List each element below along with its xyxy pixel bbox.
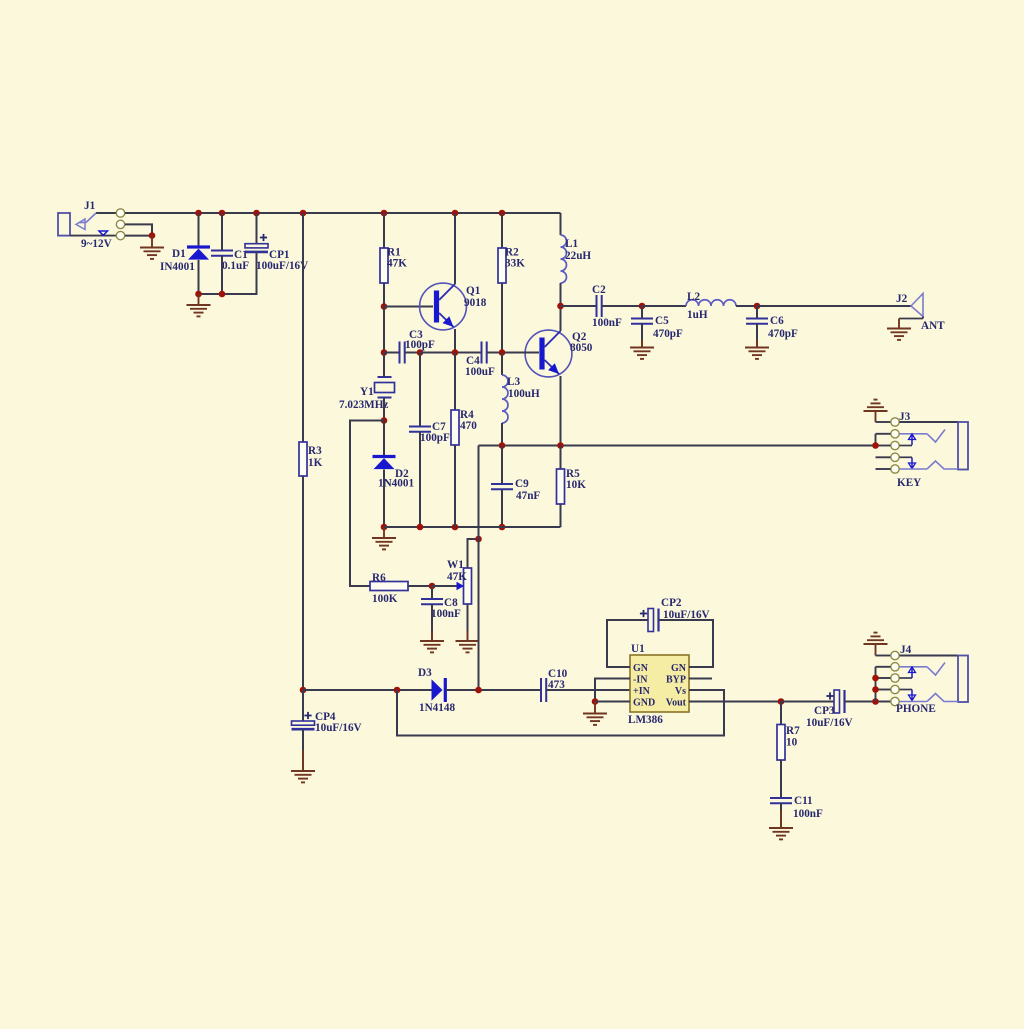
- connector J1 power jack: [58, 200, 125, 250]
- ground input filter: [187, 305, 211, 316]
- resistor R6: [370, 572, 408, 605]
- wire ground stem input filter: [198, 294, 200, 305]
- wire J1 pin3 to ground: [125, 235, 152, 237]
- ground oscillator: [372, 538, 396, 549]
- svg-text:100nF: 100nF: [592, 317, 622, 329]
- svg-text:Q1: Q1: [466, 285, 481, 297]
- svg-text:C9: C9: [515, 478, 529, 490]
- svg-text:PHONE: PHONE: [896, 703, 936, 715]
- wire J1 pin2 to ground: [125, 224, 152, 235]
- svg-text:47nF: 47nF: [516, 490, 540, 502]
- svg-text:8050: 8050: [570, 342, 593, 354]
- wire Vout to CP3: [781, 701, 834, 703]
- potentiometer W1: [432, 559, 472, 604]
- wire C3 left lead: [384, 352, 400, 354]
- svg-text:10uF/16V: 10uF/16V: [806, 717, 853, 729]
- wire R7 top lead: [780, 702, 782, 725]
- svg-text:BYP: BYP: [666, 675, 686, 686]
- junction C6 node: [754, 303, 761, 310]
- junction V+ low node: [300, 687, 307, 694]
- svg-text:Y1: Y1: [360, 386, 374, 398]
- junction key jack node: [872, 442, 879, 449]
- diode D1: [160, 245, 210, 273]
- ground J2: [887, 329, 911, 340]
- wire R7 bottom lead: [780, 760, 782, 798]
- wire L3 bottom lead: [501, 423, 503, 446]
- wire C2 right lead: [602, 305, 642, 307]
- wire ground stem J2: [898, 319, 900, 329]
- wire R5 top lead: [560, 446, 562, 470]
- ground C6: [745, 348, 769, 359]
- wire V+ top rail: [125, 212, 561, 214]
- wire R3 bottom lead: [302, 476, 304, 690]
- wire CP1 bottom lead: [199, 252, 257, 294]
- inductor L2: [686, 291, 736, 321]
- junction C9 gnd node: [499, 524, 506, 531]
- ground C5: [630, 348, 654, 359]
- wire C7 top lead: [419, 353, 421, 427]
- wire C2 left lead: [561, 305, 597, 307]
- wire ground stem W1: [467, 631, 469, 641]
- wire C1 top lead: [221, 213, 223, 251]
- svg-text:0.1uF: 0.1uF: [222, 260, 249, 272]
- junction gnd rail left: [381, 524, 388, 531]
- wire ground stem C5: [641, 340, 643, 348]
- junction Q1 base node: [381, 303, 388, 310]
- svg-text:22uH: 22uH: [565, 250, 591, 262]
- wire C5 to L2: [642, 305, 686, 307]
- wire Vs supply loop: [397, 690, 724, 736]
- svg-text:L2: L2: [687, 291, 700, 303]
- wire R1 to C3 node: [383, 307, 385, 353]
- svg-text:GND: GND: [633, 698, 655, 709]
- wire R5 bottom lead: [560, 504, 562, 527]
- wire R6 right lead: [408, 585, 432, 587]
- wire Q2 collector lead: [560, 306, 562, 331]
- wire ground stem J3: [875, 411, 877, 422]
- junction rail/Q1 collector: [452, 210, 459, 217]
- wire -IN to gnd: [595, 679, 630, 702]
- svg-text:CP2: CP2: [661, 597, 682, 609]
- wire Y1 bottom lead: [383, 398, 385, 421]
- diode D2: [373, 455, 415, 490]
- svg-text:R3: R3: [308, 445, 322, 457]
- junction rail/R3: [300, 210, 307, 217]
- connector J4 PHONE jack: [876, 644, 969, 715]
- wire D3 cathode lead: [446, 689, 541, 691]
- svg-text:C5: C5: [655, 315, 669, 327]
- capacitor CP1: [245, 234, 308, 272]
- junction Q2 base node: [499, 349, 506, 356]
- svg-text:9~12V: 9~12V: [81, 238, 112, 250]
- svg-text:Vs: Vs: [675, 686, 686, 697]
- junction J4 tie b: [872, 686, 879, 693]
- svg-text:C2: C2: [592, 284, 606, 296]
- ground W1: [456, 641, 480, 652]
- capacitor CP2: [640, 597, 710, 632]
- svg-text:J1: J1: [84, 200, 96, 212]
- wire CP1 top lead: [256, 213, 258, 244]
- wire ground stem U1 gnd: [594, 702, 596, 714]
- junction C3/C7 node: [417, 349, 424, 356]
- crystal Y1: [339, 377, 395, 411]
- svg-text:47K: 47K: [387, 258, 407, 270]
- wire L1 bottom lead: [560, 283, 562, 306]
- capacitor C9: [491, 478, 540, 502]
- capacitor C11: [770, 795, 823, 820]
- wire Q1 collector lead: [454, 213, 456, 284]
- svg-text:CP3: CP3: [814, 705, 835, 717]
- capacitor C10: [541, 668, 568, 702]
- wire Y1 top lead: [383, 353, 385, 378]
- capacitor C1: [211, 249, 249, 272]
- connector J2 ANT: [896, 293, 945, 332]
- junction C3 left node: [381, 349, 388, 356]
- capacitor CP4: [292, 711, 362, 734]
- wire key line drop: [478, 446, 480, 540]
- svg-text:W1: W1: [447, 559, 464, 571]
- svg-text:100nF: 100nF: [431, 608, 461, 620]
- svg-text:-IN: -IN: [633, 675, 648, 686]
- wire C5 bottom lead: [641, 324, 643, 348]
- wire ground stem CP4: [302, 750, 304, 771]
- wire R1 bottom lead: [383, 283, 385, 307]
- connector J3 KEY jack: [876, 411, 969, 489]
- junction rail/CP1: [253, 210, 260, 217]
- svg-text:33K: 33K: [505, 258, 525, 270]
- resistor R2: [498, 247, 525, 284]
- wire oscillator gnd rail: [384, 526, 561, 528]
- junction rail/R1: [381, 210, 388, 217]
- wire CP4 bottom lead: [302, 730, 304, 772]
- wire CP4 top lead: [302, 690, 304, 721]
- wire C4 right lead: [487, 352, 502, 354]
- capacitor C3: [400, 329, 436, 364]
- svg-text:D3: D3: [418, 667, 432, 679]
- junction emitter/key node: [557, 442, 564, 449]
- wire ground stem C6: [756, 340, 758, 348]
- diode D3: [418, 667, 455, 714]
- wire key line: [479, 445, 875, 447]
- wire C6 bottom lead: [756, 324, 758, 348]
- svg-text:ANT: ANT: [921, 320, 945, 332]
- svg-text:C6: C6: [770, 315, 784, 327]
- junction gnd rail R4: [452, 524, 459, 531]
- junction rail/D1: [195, 210, 202, 217]
- svg-text:100nF: 100nF: [793, 808, 823, 820]
- wire R3 top lead: [302, 213, 304, 442]
- wire ground stem C8: [431, 631, 433, 641]
- wire ground stem J4: [875, 644, 877, 656]
- svg-text:100uH: 100uH: [508, 388, 540, 400]
- ground J4: [864, 633, 888, 644]
- wire low supply: [303, 689, 432, 691]
- svg-text:J2: J2: [896, 293, 908, 305]
- svg-text:470pF: 470pF: [768, 328, 798, 340]
- wire R4 top lead: [454, 353, 456, 411]
- ground C8: [420, 641, 444, 652]
- wire D2 top lead: [383, 421, 385, 456]
- svg-text:KEY: KEY: [897, 477, 921, 489]
- junction Vs branch node: [394, 687, 401, 694]
- ground J3: [864, 400, 888, 411]
- transistor Q1: [420, 283, 487, 330]
- resistor R5: [557, 468, 587, 504]
- resistor R1: [380, 247, 407, 284]
- svg-text:1uH: 1uH: [687, 309, 708, 321]
- wire Vout wire: [689, 701, 781, 703]
- svg-text:470: 470: [460, 420, 477, 432]
- wire Y1 node to R6: [350, 421, 384, 587]
- wire L3 top lead: [501, 353, 503, 376]
- ground J1: [140, 248, 164, 259]
- transistor Q2: [525, 330, 593, 377]
- wire CP2 right to GN right: [659, 620, 714, 667]
- wire C8 bottom lead: [431, 604, 433, 641]
- svg-text:C11: C11: [794, 795, 813, 807]
- junction gnd rail C7: [417, 524, 424, 531]
- svg-text:100pF: 100pF: [420, 432, 450, 444]
- ground C11: [769, 828, 793, 839]
- wire W1 bottom lead: [467, 604, 469, 641]
- ground CP4: [291, 771, 315, 782]
- wire C7 bottom lead: [419, 432, 421, 527]
- wire Q2 emitter lead: [560, 376, 562, 446]
- wire C8 top lead: [431, 586, 433, 599]
- svg-text:10K: 10K: [566, 479, 586, 491]
- IC U1 LM386: [628, 643, 689, 726]
- svg-text:7.023MHz: 7.023MHz: [339, 399, 388, 411]
- svg-text:GN: GN: [633, 663, 649, 674]
- svg-text:9018: 9018: [464, 297, 487, 309]
- junction C4 left node: [452, 349, 459, 356]
- wire R2 bottom lead: [501, 283, 503, 353]
- wire R2 top lead: [501, 213, 503, 248]
- svg-text:J3: J3: [899, 411, 911, 423]
- inductor L3: [502, 375, 540, 423]
- wire C9 top lead: [501, 446, 503, 485]
- resistor R3: [299, 442, 323, 476]
- ground U1 gnd: [583, 714, 607, 725]
- wire ground stem J1: [151, 236, 153, 248]
- svg-text:+IN: +IN: [633, 686, 651, 697]
- wire R4 bottom lead: [454, 445, 456, 527]
- wire L2 to C6: [736, 305, 757, 307]
- svg-text:470pF: 470pF: [653, 328, 683, 340]
- wire W1 top lead: [468, 539, 479, 568]
- junction sidetone node: [475, 536, 482, 543]
- wire Q1 base wire: [384, 306, 433, 308]
- wire ground stem oscillator: [383, 527, 385, 538]
- capacitor C7: [409, 421, 450, 444]
- capacitor C8: [421, 597, 461, 620]
- junction audio in node: [475, 687, 482, 694]
- junction L3/key node: [499, 442, 506, 449]
- wire CP3 to J4: [845, 701, 892, 703]
- resistor R4: [451, 409, 477, 445]
- capacitor C2: [592, 284, 622, 329]
- capacitor C4: [465, 342, 495, 379]
- svg-text:U1: U1: [631, 643, 645, 655]
- wire BYP stub: [689, 678, 712, 680]
- junction rail/C1: [219, 210, 226, 217]
- capacitor C6: [746, 315, 798, 340]
- wire C5 top lead: [641, 306, 643, 319]
- capacitor CP3: [806, 690, 853, 729]
- junction Q2 collector node: [557, 303, 564, 310]
- wire C11 bottom lead: [780, 803, 782, 828]
- svg-text:10uF/16V: 10uF/16V: [315, 722, 362, 734]
- svg-text:D1: D1: [172, 248, 186, 260]
- wire C3-C4 link: [420, 352, 482, 354]
- resistor R7: [777, 725, 800, 761]
- svg-text:1K: 1K: [308, 457, 323, 469]
- wire GND pin: [595, 701, 630, 703]
- inductor L1: [561, 235, 592, 283]
- wire antenna wire: [757, 305, 911, 307]
- svg-text:L1: L1: [565, 238, 578, 250]
- wire Q1 emitter lead: [454, 329, 456, 353]
- svg-text:Vout: Vout: [666, 698, 687, 709]
- svg-text:L3: L3: [507, 376, 520, 388]
- svg-text:GN: GN: [671, 663, 687, 674]
- svg-text:LM386: LM386: [628, 714, 663, 726]
- junction filter gnd a: [195, 291, 202, 298]
- wire C9 bottom lead: [501, 489, 503, 527]
- svg-text:IN4001: IN4001: [160, 261, 195, 273]
- svg-text:1N4148: 1N4148: [419, 702, 455, 714]
- wire R1 top lead: [383, 213, 385, 248]
- svg-text:100uF: 100uF: [465, 366, 495, 378]
- svg-text:J4: J4: [900, 644, 912, 656]
- junction Vout node: [778, 698, 785, 705]
- svg-text:R6: R6: [372, 572, 386, 584]
- junction phone node: [872, 698, 879, 705]
- junction C5 node: [639, 303, 646, 310]
- junction rail/R2: [499, 210, 506, 217]
- junction J4 tie a: [872, 675, 879, 682]
- wire D1 top lead: [198, 213, 200, 246]
- wire L1 top lead: [560, 213, 562, 235]
- svg-text:100uF/16V: 100uF/16V: [256, 260, 308, 272]
- wire ground stem C11: [780, 810, 782, 828]
- wire sidetone drop: [478, 539, 480, 690]
- junction R6/C8/wiper node: [429, 583, 436, 590]
- wire C10 to +IN: [546, 689, 630, 691]
- junction J1 ground node: [149, 232, 156, 239]
- svg-text:100K: 100K: [372, 593, 398, 605]
- wire C6 top lead: [756, 306, 758, 319]
- wire D2 bottom lead: [383, 470, 385, 528]
- svg-text:47K: 47K: [447, 571, 467, 583]
- svg-text:R7: R7: [786, 725, 800, 737]
- wire C1 bottom lead: [221, 256, 223, 294]
- svg-text:10: 10: [786, 737, 798, 749]
- wire D1 bottom lead: [198, 260, 200, 294]
- capacitor C5: [631, 315, 683, 340]
- wire C3 right lead: [405, 352, 420, 354]
- junction Y1/D2 node: [381, 417, 388, 424]
- junction filter gnd b: [219, 291, 226, 298]
- junction gnd pin node: [592, 698, 599, 705]
- wire GN left pin: [607, 620, 648, 667]
- wire Q2 base wire: [502, 352, 539, 354]
